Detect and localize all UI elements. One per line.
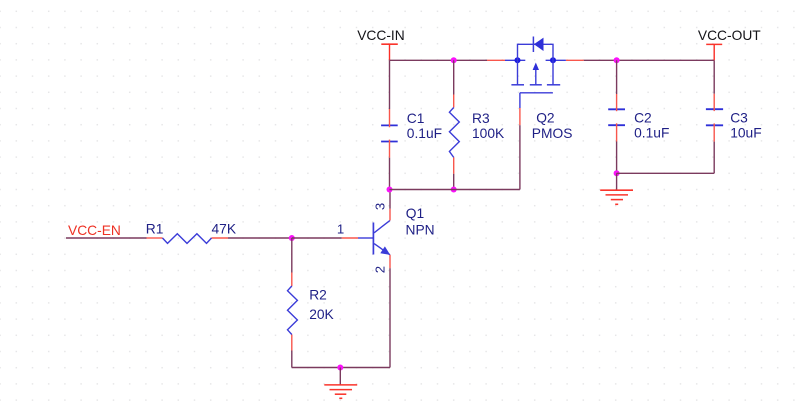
junction C1 bottom: [387, 187, 393, 193]
resistor R1: [147, 234, 229, 244]
svg-text:C1: C1: [407, 111, 425, 126]
label C1: [407, 111, 425, 126]
svg-text:100K: 100K: [472, 126, 505, 141]
label C2: [634, 111, 652, 126]
junction R3 bottom: [451, 187, 457, 193]
label Q1: [406, 206, 424, 221]
svg-text:PMOS: PMOS: [532, 126, 573, 141]
node A junction: [289, 235, 295, 241]
svg-text:0.1uF: 0.1uF: [634, 125, 669, 140]
value 0.1uF: [407, 126, 442, 141]
wire VCC-OUT down to C3: [713, 60, 715, 94]
value NPN: [406, 222, 435, 237]
ground GND2: [600, 190, 633, 204]
label R3: [472, 111, 490, 126]
wire R2 to bottom rail: [291, 351, 293, 368]
svg-text:10uF: 10uF: [730, 125, 761, 140]
wire collector rail: [390, 189, 520, 191]
value 20K: [309, 307, 334, 322]
ground GND1 stem: [339, 368, 341, 385]
svg-text:C3: C3: [730, 111, 748, 126]
wire Q1 collector to rail: [389, 190, 391, 209]
value 10uF: [730, 125, 761, 140]
svg-text:0.1uF: 0.1uF: [407, 126, 442, 141]
svg-text:20K: 20K: [309, 307, 334, 322]
svg-text:NPN: NPN: [406, 222, 435, 237]
label Q2: [536, 110, 554, 125]
label C3: [730, 111, 748, 126]
wire rail down to R3: [453, 60, 455, 94]
junction R3 top: [451, 57, 457, 63]
svg-text:VCC-IN: VCC-IN: [357, 28, 405, 43]
value 100K: [472, 126, 505, 141]
wire R1 to node A: [228, 237, 292, 239]
svg-text:C2: C2: [634, 111, 652, 126]
pin number 3: [373, 203, 388, 210]
value 47K: [212, 221, 237, 236]
svg-text:47K: 47K: [212, 221, 237, 236]
transistor Q1: [342, 209, 390, 269]
svg-text:R1: R1: [146, 221, 164, 236]
pin number 2: [373, 266, 388, 273]
wire C1 to collector rail: [389, 158, 391, 190]
wire rail down to C2: [616, 60, 618, 94]
ground GND2 stem: [616, 173, 618, 190]
resistor R3: [449, 95, 459, 174]
ground GND1: [324, 385, 357, 398]
svg-text:1: 1: [337, 221, 344, 236]
capacitor C3: [706, 94, 723, 142]
svg-text:3: 3: [373, 203, 388, 210]
wire VCC-IN rail: [390, 59, 488, 61]
net label VCC-IN: [357, 28, 405, 43]
junction C2 bottom: [614, 170, 620, 176]
label R2: [309, 288, 327, 303]
power pin VCC-OUT: [706, 44, 722, 60]
svg-text:Q2: Q2: [536, 110, 554, 125]
wire Q1 emitter down: [389, 268, 391, 367]
svg-text:Q1: Q1: [406, 206, 424, 221]
capacitor C1: [381, 109, 398, 158]
junction C2 top: [614, 57, 620, 63]
resistor R2: [288, 273, 298, 351]
net label VCC-EN: [68, 223, 121, 238]
pin number 1 (Q1 base): [337, 221, 344, 236]
svg-text:VCC-OUT: VCC-OUT: [698, 28, 761, 43]
wire Q2 gate down to rail: [519, 125, 521, 189]
wire node A down to R2: [291, 238, 293, 273]
label R1: [146, 221, 164, 236]
svg-text:2: 2: [373, 266, 388, 273]
wire bottom rail: [292, 367, 390, 369]
junction at ground GND1: [337, 365, 343, 371]
svg-text:VCC-EN: VCC-EN: [68, 223, 121, 238]
value 0.1uF (C2): [634, 125, 669, 140]
power pin VCC-IN: [381, 44, 398, 60]
wire VCC-IN to C1: [389, 60, 391, 109]
wire PMOS to VCC-OUT rail: [584, 59, 714, 61]
capacitor C2: [608, 94, 625, 142]
wire C2 to ground junction: [616, 142, 618, 174]
wire R3 to collector rail: [453, 174, 455, 190]
transistor Q2 PMOS: [487, 37, 584, 126]
wire node A to Q1 base: [292, 237, 342, 239]
svg-text:R3: R3: [472, 111, 490, 126]
svg-text:R2: R2: [309, 288, 327, 303]
net label VCC-OUT: [698, 28, 761, 43]
wire C3 bottom to ground junction: [617, 172, 715, 174]
wire VCC-EN to R1: [66, 237, 147, 239]
value PMOS: [532, 126, 573, 141]
wire C3 down: [713, 142, 715, 174]
